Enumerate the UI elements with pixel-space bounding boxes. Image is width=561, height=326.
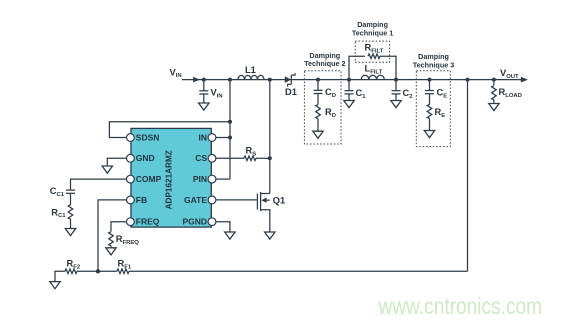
svg-text:FREQ: FREQ (136, 217, 160, 227)
transistor Q1 (256, 194, 258, 210)
resistor RS (244, 156, 256, 161)
ground (PGND) (225, 232, 235, 239)
svg-text:L1: L1 (245, 65, 256, 75)
ground (C2) (391, 101, 401, 108)
wire CC1 to RC1 (70, 193, 72, 205)
wire to input cap (203, 80, 205, 91)
wire FB (98, 200, 127, 271)
wire C1 to ground (348, 94, 350, 101)
wire GND (107, 158, 127, 166)
svg-text:Technique 1: Technique 1 (352, 28, 393, 37)
inductor LFILT (361, 75, 384, 79)
pin PIN (208, 175, 216, 183)
wire COMP (71, 179, 127, 190)
svg-text:IN: IN (199, 132, 208, 142)
wire PGND (216, 222, 230, 232)
ground (C1) (344, 101, 354, 108)
input arrow (193, 77, 200, 83)
junction: C1 node (347, 78, 351, 82)
wire CD to RD (317, 94, 319, 105)
wire to C1 (348, 80, 350, 91)
ground (RFREQ) (106, 248, 116, 255)
wire RFILT loop (349, 56, 365, 79)
resistor RF1 (117, 269, 129, 274)
wire feedback vertical (467, 80, 469, 272)
wire SDSN tie-high (109, 122, 230, 138)
resistor RD (316, 105, 321, 119)
ground (Q1 source) (265, 232, 275, 239)
wire RE to ground (429, 119, 431, 131)
pin SDSN (126, 134, 134, 142)
svg-text:Technique 3: Technique 3 (413, 61, 454, 70)
pin FREQ (126, 218, 134, 226)
wire FREQ (111, 222, 127, 232)
ground (RD) (313, 131, 323, 138)
pin GND (126, 154, 134, 162)
resistor RE (427, 105, 432, 119)
resistor RFILT (368, 54, 380, 59)
ground (RE) (424, 131, 434, 138)
wire to C2 (395, 80, 397, 91)
svg-text:ADP1621ARMZ: ADP1621ARMZ (165, 150, 174, 209)
wire RC1 to ground (70, 219, 72, 229)
pin COMP (126, 175, 134, 183)
ground (input cap) (199, 103, 209, 110)
svg-text:www.cntronics.com: www.cntronics.com (378, 293, 542, 319)
capacitor CE (425, 90, 434, 92)
damping technique 3 box (416, 71, 450, 147)
junction: CE node (428, 78, 432, 82)
capacitor CD (314, 89, 323, 91)
resistor RLOAD (492, 86, 497, 100)
svg-text:Technique 2: Technique 2 (304, 59, 345, 68)
damping technique 2 box (304, 71, 341, 144)
resistor RC1 (68, 205, 73, 219)
wire IN (216, 137, 230, 139)
junction: FB divider node (96, 269, 100, 273)
wire switch node vertical (269, 80, 271, 194)
wire CE to RE (429, 94, 431, 105)
svg-text:Q1: Q1 (273, 196, 285, 206)
wire to CD (317, 80, 319, 91)
wire to RLOAD (493, 80, 495, 86)
wire RFILT to right stub (380, 56, 396, 79)
junction: RLOAD node (492, 78, 496, 82)
ground (RLOAD) (489, 104, 499, 111)
output arrow VOUT (521, 77, 528, 83)
wire to CE (429, 80, 431, 91)
wire RF2 to node (77, 270, 98, 272)
wire cap to ground (203, 94, 205, 103)
junction: feedback tap (466, 78, 470, 82)
wire IC supply vertical (229, 80, 231, 180)
diode D1 (285, 76, 291, 83)
junction: CS sense tap (268, 156, 272, 160)
resistor RFREQ (109, 232, 114, 246)
ground (RC1) (65, 229, 75, 236)
wire feedback bottom (129, 270, 468, 272)
capacitor C2 (392, 90, 401, 92)
pin FB (126, 196, 134, 204)
junction: IN tie (228, 136, 232, 140)
junction: CD node (316, 78, 320, 82)
capacitor CC1 (66, 189, 75, 191)
wire node to RF1 (98, 270, 117, 272)
svg-text:PIN: PIN (193, 174, 207, 184)
wire top rail (182, 79, 521, 81)
resistor RF2 (65, 269, 77, 274)
junction: IC supply tap (228, 78, 232, 82)
junction: input cap node (202, 78, 206, 82)
pin GATE (208, 196, 216, 204)
svg-text:PGND: PGND (182, 217, 207, 227)
inductor L1 (238, 75, 264, 79)
wire RFREQ to ground (110, 246, 112, 248)
wire RLOAD to ground (493, 100, 495, 104)
svg-text:GND: GND (136, 153, 155, 163)
wire RD to ground (317, 119, 319, 132)
wire CS to RS (216, 157, 244, 159)
svg-text:COMP: COMP (136, 174, 162, 184)
ground (GND pin) (102, 166, 112, 173)
junction: switch node (268, 78, 272, 82)
wire PIN (216, 178, 230, 180)
damping technique 1 box (355, 41, 389, 62)
op-amp U1 ADP1621ARMZ body (131, 128, 211, 227)
junction: C2 node (394, 78, 398, 82)
pin IN (208, 134, 216, 142)
junction: SDSN tie (228, 120, 232, 124)
wire C2 to ground (395, 94, 397, 101)
svg-text:D1: D1 (285, 87, 297, 97)
svg-text:GATE: GATE (184, 195, 207, 205)
svg-text:FB: FB (136, 195, 147, 205)
wire RF2 left end (55, 271, 65, 281)
svg-text:SDSN: SDSN (136, 132, 160, 142)
ground (RF2) (50, 282, 60, 289)
capacitor C1 (345, 90, 354, 92)
wire GATE (216, 199, 257, 201)
pin CS (208, 154, 216, 162)
svg-text:CS: CS (195, 153, 207, 163)
wire RS to switch node (256, 157, 270, 159)
pin PGND (208, 218, 216, 226)
capacitor VIN (199, 90, 208, 92)
